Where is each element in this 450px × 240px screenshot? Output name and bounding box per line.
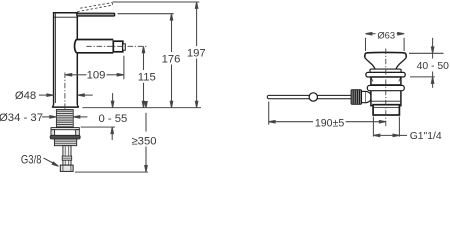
lever handle open position (dashed) — [77, 3, 113, 12]
svg-text:G1"1/4: G1"1/4 — [410, 131, 442, 142]
rod ball joint — [309, 93, 317, 101]
svg-text:115: 115 — [138, 71, 156, 83]
dimension Ø63 — [366, 29, 405, 51]
svg-text:197: 197 — [187, 48, 206, 60]
lever handle (closed) — [77, 13, 115, 16]
trumpet neck — [365, 58, 406, 69]
dimension Ø48 — [15, 90, 93, 102]
knob collar — [362, 91, 366, 102]
threaded outlet tube — [373, 105, 399, 115]
svg-text:Ø48: Ø48 — [15, 90, 36, 102]
dimension Ø34 - 37 — [0, 112, 87, 124]
faucet body — [53, 13, 79, 107]
lock block — [54, 139, 76, 146]
lift rod — [267, 95, 352, 98]
supply hose — [62, 146, 71, 165]
svg-text:Ø63: Ø63 — [377, 29, 395, 40]
hose end reference line — [75, 171, 148, 173]
seat flange — [366, 72, 405, 77]
svg-text:0 - 55: 0 - 55 — [98, 113, 127, 125]
dimension 109 — [65, 56, 124, 82]
knurled adjuster knob — [351, 90, 361, 105]
svg-text:176: 176 — [162, 54, 181, 66]
waste body — [371, 77, 401, 106]
G3/8 end fitting nut — [60, 165, 73, 171]
drain axis centerline — [385, 49, 387, 127]
rod port boss — [366, 91, 372, 102]
locating ring — [367, 85, 404, 90]
body axis centerline — [64, 73, 66, 127]
dimension 190±5 — [269, 102, 386, 130]
waste plug cap — [365, 52, 406, 57]
spout — [75, 40, 114, 53]
threaded shank — [56, 110, 73, 128]
mounting bracket washer — [51, 128, 79, 130]
max deck thickness line — [81, 126, 115, 128]
dimension 197 — [113, 2, 206, 108]
aerator lip — [123, 44, 126, 50]
dimension G1"1/4 — [373, 117, 442, 142]
dimension 40 - 50 — [409, 38, 449, 88]
dimension 0 - 55 — [98, 93, 127, 140]
dimension >=350 — [131, 102, 156, 172]
neck ring — [370, 69, 401, 72]
svg-text:109: 109 — [87, 70, 106, 82]
spout axis centerline — [86, 45, 146, 47]
svg-text:≥350: ≥350 — [131, 135, 156, 147]
deck reference line — [83, 107, 202, 109]
aerator — [113, 41, 123, 52]
dimension 115 — [138, 46, 156, 107]
svg-text:190±5: 190±5 — [315, 117, 344, 129]
bracket tab right — [76, 130, 80, 137]
svg-text:G3/8: G3/8 — [21, 153, 42, 167]
G3/8 label — [21, 153, 59, 168]
dimension 176 — [118, 14, 181, 108]
seal nut — [50, 135, 80, 139]
svg-text:Ø34 - 37: Ø34 - 37 — [0, 112, 43, 124]
svg-text:40 - 50: 40 - 50 — [417, 61, 450, 72]
bracket tab left — [51, 130, 55, 137]
